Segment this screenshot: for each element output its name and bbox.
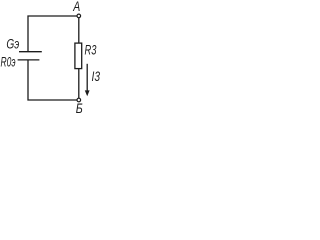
- svg-text:I3: I3: [92, 69, 101, 84]
- svg-text:R0э: R0э: [1, 54, 16, 69]
- svg-text:Б: Б: [76, 101, 83, 114]
- svg-text:R3: R3: [85, 43, 97, 58]
- svg-text:A: A: [73, 0, 81, 14]
- svg-text:Gэ: Gэ: [6, 36, 19, 51]
